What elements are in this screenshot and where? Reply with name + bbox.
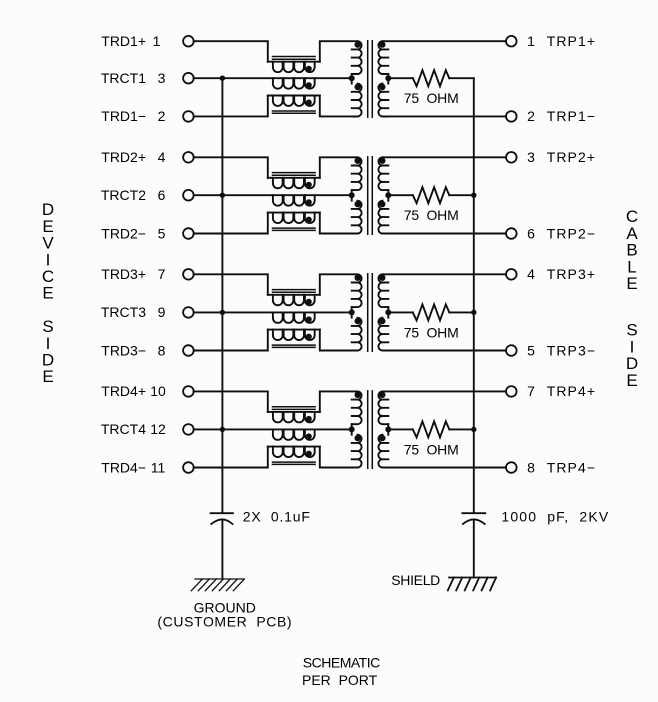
transformer T2 primary lower half (352, 201, 362, 234)
terminal TRCT2 pin 6 (183, 190, 194, 201)
svg-text:4: 4 (527, 266, 535, 282)
wire choke to transformer T4 bottom (320, 447, 358, 468)
svg-text:(CUSTOMER PCB): (CUSTOMER PCB) (157, 613, 292, 629)
capacitor C2 top plate (462, 512, 485, 514)
terminal TRD1− pin 2 (183, 111, 194, 122)
junction TRCT2 / ground rail (220, 193, 225, 198)
terminal TRP pin 3 (506, 152, 517, 163)
terminal TRP pin 5 (506, 345, 517, 356)
transformer T2 secondary polarity dot lower (379, 201, 385, 207)
terminal TRCT1 pin 3 (183, 73, 194, 84)
wire tap to resistor R3 (388, 311, 413, 313)
junction resistor R4 / shield rail (471, 427, 476, 432)
wire TRD4+ to choke (194, 391, 268, 412)
svg-text:TRD1+: TRD1+ (101, 33, 146, 49)
svg-text:TRCT4: TRCT4 (101, 421, 146, 437)
transformer T3 secondary upper half (378, 274, 388, 307)
svg-text:PER PORT: PER PORT (302, 672, 378, 688)
svg-text:TRP2+: TRP2+ (547, 149, 596, 165)
choke L2 middle winding (273, 195, 315, 205)
transformer T1 secondary polarity dot lower (379, 84, 385, 90)
shield ground symbol (448, 578, 496, 591)
svg-text:5: 5 (158, 225, 166, 241)
choke L2 top winding (273, 178, 315, 188)
svg-text:TRP1+: TRP1+ (547, 33, 596, 49)
terminal TRP pin 1 (506, 36, 517, 47)
transformer T2 secondary lower half (378, 201, 388, 234)
choke L4 bottom winding (273, 447, 315, 457)
choke L3 top winding (273, 295, 315, 305)
svg-text:75 OHM: 75 OHM (404, 324, 459, 340)
transformer T4 primary upper half (352, 391, 362, 424)
svg-text:TRCT3: TRCT3 (101, 304, 146, 320)
wire T2 secondary bottom to terminal (383, 233, 507, 235)
terminal TRP pin 2 (506, 111, 517, 122)
svg-text:7: 7 (158, 266, 166, 282)
wire TRCT2 to transformer center tap (194, 194, 352, 196)
transformer T3 core (368, 274, 373, 352)
transformer T2 secondary polarity dot upper (379, 158, 385, 164)
transformer T1 secondary lower half (378, 84, 388, 117)
svg-text:TRCT1: TRCT1 (101, 70, 146, 86)
transformer T4 primary polarity dot lower (355, 435, 361, 441)
wire TRCT3 to transformer center tap (194, 311, 352, 313)
svg-text:TRP3−: TRP3− (547, 342, 596, 358)
wire TRD3− to choke (194, 330, 268, 351)
wire T2 secondary top to terminal (383, 156, 507, 158)
transformer T3 secondary polarity dot lower (379, 318, 385, 324)
choke L4 bottom winding polarity dot (306, 451, 312, 457)
transformer T3 primary upper tap lead (351, 307, 353, 312)
svg-text:TRD3+: TRD3+ (101, 266, 146, 282)
transformer T1 secondary center tap junction dot (385, 75, 391, 81)
svg-text:6: 6 (527, 225, 535, 241)
svg-text:2: 2 (527, 108, 535, 124)
transformer T3 primary polarity dot lower (355, 318, 361, 324)
wire T3 secondary bottom to terminal (383, 350, 507, 352)
terminal TRCT3 pin 9 (183, 307, 194, 318)
transformer T4 secondary center tap junction dot (385, 426, 391, 432)
wire TRD4− to choke (194, 447, 268, 468)
choke L1 top winding (273, 62, 315, 72)
choke L1 bottom winding baseline (268, 95, 320, 97)
transformer T3 primary center tap junction dot (349, 309, 355, 315)
terminal TRD1+ pin 1 (183, 36, 194, 47)
choke L3 top winding polarity dot (306, 299, 312, 305)
transformer T3 secondary lower half (378, 318, 388, 351)
capacitor C2 curved plate (463, 519, 485, 524)
choke L4 top winding baseline (268, 411, 320, 413)
choke L4 core (273, 407, 316, 465)
wire TRCT1 to transformer center tap (194, 77, 352, 79)
transformer T3 secondary lower tap lead (387, 312, 389, 317)
terminal TRP pin 4 (506, 269, 517, 280)
svg-text:6: 6 (158, 187, 166, 203)
wire resistor R3 to shield rail (449, 311, 474, 313)
choke L4 top winding polarity dot (306, 416, 312, 422)
junction resistor R3 / shield rail (471, 310, 476, 315)
svg-text:75 OHM: 75 OHM (404, 207, 459, 223)
resistor R3 75 OHM (413, 304, 450, 320)
transformer T2 primary polarity dot lower (355, 201, 361, 207)
junction TRCT1 / ground rail (220, 76, 225, 81)
transformer T1 primary upper half (352, 41, 362, 74)
wire TRD1+ to choke (194, 41, 268, 62)
transformer T1 core (368, 41, 373, 118)
transformer T4 core (368, 391, 373, 468)
wire choke to transformer T3 top (320, 274, 358, 295)
svg-text:10: 10 (150, 383, 166, 399)
choke L1 top winding polarity dot (306, 66, 312, 72)
resistor R2 75 OHM (413, 187, 450, 203)
svg-text:11: 11 (151, 459, 166, 475)
transformer T4 primary lower tap lead (351, 429, 353, 434)
choke L2 bottom winding baseline (268, 212, 320, 214)
terminal TRP pin 8 (506, 462, 517, 473)
transformer T1 primary polarity dot lower (355, 84, 361, 90)
svg-text:75 OHM: 75 OHM (404, 90, 459, 106)
junction TRCT3 / ground rail (220, 310, 225, 315)
svg-text:9: 9 (158, 304, 166, 320)
transformer T4 primary center tap junction dot (349, 426, 355, 432)
wire resistor R2 to shield rail (449, 194, 474, 196)
transformer T4 secondary lower half (378, 435, 388, 468)
transformer T1 secondary upper tap lead (387, 74, 389, 78)
svg-text:E: E (626, 274, 637, 293)
wire T1 secondary top to terminal (383, 40, 507, 42)
terminal TRP pin 7 (506, 386, 517, 397)
transformer T1 primary center tap junction dot (349, 75, 355, 81)
ground symbol (customer PCB) (191, 579, 244, 591)
svg-text:SCHEMATIC: SCHEMATIC (303, 654, 380, 670)
wire resistor R4 to shield rail (449, 428, 474, 430)
choke L4 middle winding (273, 429, 315, 439)
svg-text:5: 5 (527, 342, 535, 358)
choke L2 bottom winding polarity dot (306, 217, 312, 223)
wire capacitor C2 to shield ground (473, 520, 475, 577)
choke L3 bottom winding polarity dot (306, 334, 312, 340)
terminal TRD4− pin 11 (183, 462, 194, 473)
transformer T4 primary lower half (352, 435, 362, 468)
svg-text:1000 pF, 2KV: 1000 pF, 2KV (501, 509, 609, 525)
transformer T3 secondary upper tap lead (387, 307, 389, 312)
svg-text:E: E (42, 284, 53, 303)
wire TRD2+ to choke (194, 157, 268, 178)
choke L2 bottom winding (273, 213, 315, 223)
choke L1 middle winding (273, 78, 315, 88)
transformer T2 primary lower tap lead (351, 195, 353, 201)
transformer T2 primary polarity dot upper (355, 158, 361, 164)
shield rail (cable side) (473, 78, 475, 513)
ground rail (device side) (221, 78, 223, 513)
transformer T1 secondary lower tap lead (387, 78, 389, 83)
svg-text:3: 3 (527, 149, 535, 165)
svg-text:TRP4−: TRP4− (547, 459, 596, 475)
transformer T2 core (368, 157, 373, 235)
transformer T4 secondary lower tap lead (387, 429, 389, 434)
choke L1 middle winding polarity dot (306, 82, 312, 88)
transformer T4 secondary upper half (378, 391, 388, 424)
wire tap to resistor R4 (388, 428, 413, 430)
svg-text:TRD3−: TRD3− (101, 342, 146, 358)
terminal TRD4+ pin 10 (183, 386, 194, 397)
choke L4 bottom winding baseline (268, 446, 320, 448)
capacitor C1 curved plate (211, 519, 232, 524)
terminal TRP pin 6 (506, 228, 517, 239)
svg-text:TRCT2: TRCT2 (101, 187, 146, 203)
svg-text:TRD1−: TRD1− (101, 108, 146, 124)
transformer T2 primary center tap junction dot (349, 192, 355, 198)
terminal TRD2+ pin 4 (183, 152, 194, 163)
choke L3 core (273, 290, 316, 348)
junction resistor R2 / shield rail (471, 193, 476, 198)
svg-text:8: 8 (527, 459, 535, 475)
wire choke to transformer T3 bottom (320, 330, 358, 351)
wire TRD3+ to choke (194, 274, 268, 295)
transformer T1 primary upper tap lead (351, 74, 353, 78)
svg-text:1: 1 (527, 33, 535, 49)
svg-text:1: 1 (153, 33, 161, 49)
transformer T4 primary upper tap lead (351, 424, 353, 429)
capacitor C1 top plate (211, 512, 233, 514)
transformer T3 secondary polarity dot upper (379, 275, 385, 281)
terminal TRCT4 pin 12 (183, 424, 194, 435)
svg-text:SHIELD: SHIELD (391, 572, 440, 588)
transformer T4 secondary polarity dot lower (379, 435, 385, 441)
svg-text:E: E (626, 371, 637, 390)
transformer T1 primary polarity dot upper (355, 41, 361, 47)
choke L3 top winding baseline (268, 294, 320, 296)
wire tap to resistor R2 (388, 194, 413, 196)
svg-text:2: 2 (158, 108, 166, 124)
wire capacitor C1 to ground (221, 520, 223, 579)
svg-text:12: 12 (150, 421, 166, 437)
resistor R4 75 OHM (413, 421, 450, 437)
svg-text:TRP2−: TRP2− (547, 225, 596, 241)
transformer T1 secondary upper half (378, 41, 388, 74)
transformer T3 primary lower tap lead (351, 312, 353, 317)
wire choke to transformer T2 top (320, 157, 358, 178)
choke L1 top winding baseline (268, 61, 320, 63)
choke L1 bottom winding (273, 96, 315, 106)
transformer T1 secondary polarity dot upper (379, 41, 385, 47)
svg-text:4: 4 (158, 149, 166, 165)
choke L2 top winding polarity dot (306, 182, 312, 188)
transformer T2 secondary upper tap lead (387, 190, 389, 195)
choke L2 core (273, 173, 316, 231)
svg-text:TRP4+: TRP4+ (547, 383, 596, 399)
choke L3 bottom winding baseline (268, 329, 320, 331)
transformer T2 primary upper tap lead (351, 190, 353, 195)
choke L3 middle winding polarity dot (306, 316, 312, 322)
transformer T3 primary lower half (352, 318, 362, 351)
wire choke to transformer T2 bottom (320, 213, 358, 234)
choke L1 bottom winding polarity dot (306, 100, 312, 106)
transformer T2 primary upper half (352, 157, 362, 190)
terminal TRD3− pin 8 (183, 345, 194, 356)
wire TRD1− to choke (194, 96, 268, 117)
transformer T2 secondary center tap junction dot (385, 192, 391, 198)
wire choke to transformer T1 top (320, 41, 358, 62)
choke L4 middle winding polarity dot (306, 433, 312, 439)
resistor R1 75 OHM (413, 70, 450, 86)
svg-text:TRD4+: TRD4+ (101, 383, 146, 399)
transformer T4 secondary polarity dot upper (379, 392, 385, 398)
transformer T2 secondary lower tap lead (387, 195, 389, 201)
transformer T2 secondary upper half (378, 157, 388, 190)
transformer T3 secondary center tap junction dot (385, 309, 391, 315)
transformer T1 primary lower tap lead (351, 78, 353, 83)
svg-text:TRD2+: TRD2+ (101, 149, 146, 165)
svg-text:TRP1−: TRP1− (547, 108, 596, 124)
svg-text:TRD2−: TRD2− (101, 225, 146, 241)
wire T1 secondary bottom to terminal (383, 115, 507, 117)
transformer T3 primary upper half (352, 274, 362, 307)
choke L3 bottom winding (273, 330, 315, 340)
choke L3 middle winding (273, 312, 315, 322)
terminal TRD2− pin 5 (183, 228, 194, 239)
wire tap to resistor R1 (388, 77, 413, 79)
wire choke to transformer T4 top (320, 391, 358, 412)
transformer T4 primary polarity dot upper (355, 392, 361, 398)
svg-text:75 OHM: 75 OHM (404, 441, 459, 457)
wire T3 secondary top to terminal (383, 273, 507, 275)
svg-text:TRP3+: TRP3+ (547, 266, 596, 282)
svg-text:7: 7 (527, 383, 535, 399)
svg-text:2X 0.1uF: 2X 0.1uF (243, 509, 311, 525)
choke L1 core (273, 57, 316, 114)
transformer T3 primary polarity dot upper (355, 275, 361, 281)
wire T4 secondary top to terminal (383, 390, 507, 392)
wire TRCT4 to transformer center tap (194, 428, 352, 430)
transformer T1 primary lower half (352, 84, 362, 117)
wire T4 secondary bottom to terminal (383, 467, 507, 469)
svg-text:3: 3 (158, 70, 166, 86)
svg-text:E: E (42, 367, 53, 386)
wire TRD2− to choke (194, 213, 268, 234)
svg-text:8: 8 (158, 342, 166, 358)
wire choke to transformer T1 bottom (320, 96, 358, 117)
svg-text:TRD4−: TRD4− (101, 459, 146, 475)
choke L2 middle winding polarity dot (306, 199, 312, 205)
junction TRCT4 / ground rail (220, 427, 225, 432)
terminal TRD3+ pin 7 (183, 269, 194, 280)
choke L2 top winding baseline (268, 177, 320, 179)
choke L4 top winding (273, 412, 315, 422)
wire resistor R1 to shield rail (449, 77, 474, 79)
transformer T4 secondary upper tap lead (387, 424, 389, 429)
